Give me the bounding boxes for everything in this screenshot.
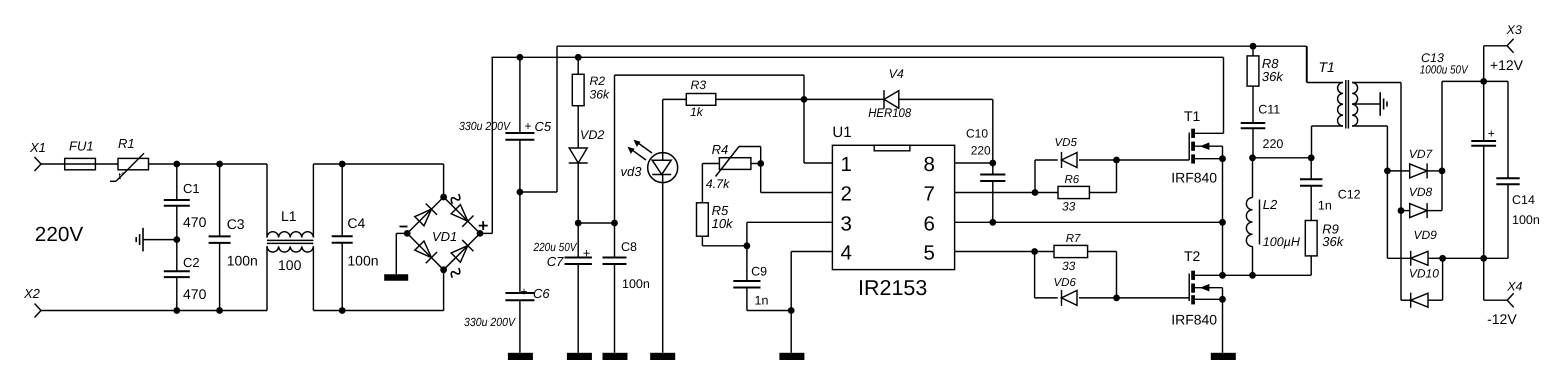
wire R1 to node — [149, 163, 268, 165]
wire FU1 to R1 — [95, 163, 118, 165]
wire R4 left to R5 — [702, 163, 719, 165]
svg-text:L2: L2 — [1263, 197, 1278, 212]
svg-text:220u 50V: 220u 50V — [533, 240, 578, 254]
svg-text:6: 6 — [924, 212, 935, 235]
node C11/L2 — [1249, 154, 1256, 161]
LED vd3 — [648, 153, 678, 183]
bridge VD1 diode top-right — [450, 204, 473, 227]
node C9/pin4 ground — [788, 307, 795, 314]
capacitor C2 — [176, 240, 178, 272]
node VD9/VD10 -12V — [1439, 255, 1446, 262]
bridge VD1 frame — [407, 197, 480, 270]
svg-text:7: 7 — [924, 183, 935, 206]
node R8 top — [1250, 43, 1257, 50]
choke L1 bottom winding — [266, 246, 268, 310]
svg-text:t°: t° — [119, 171, 126, 182]
svg-text:470: 470 — [183, 214, 207, 230]
node C12 top / primary bottom — [1308, 154, 1315, 161]
wire pin 4 to ground — [791, 251, 832, 253]
wire -12V row — [1443, 257, 1508, 259]
wire T1 source to T2 drain — [1222, 159, 1224, 276]
wire C9 to ground node — [747, 310, 791, 312]
wire pin 8 stub — [955, 162, 993, 164]
ground bar at C6 — [508, 353, 533, 360]
svg-text:100n: 100n — [347, 253, 378, 269]
bridge VD1 diode bottom-right — [450, 240, 473, 263]
bridge VD1 diode bottom-left — [414, 240, 437, 263]
svg-text:+: + — [521, 285, 528, 299]
resistor R8 — [1252, 46, 1254, 56]
capacitor C10 — [992, 163, 994, 174]
svg-text:FU1: FU1 — [69, 139, 94, 154]
svg-text:C7: C7 — [547, 254, 564, 269]
wire bridge minus to ground — [396, 232, 407, 234]
wire to bridge top — [443, 164, 445, 197]
svg-text:T2: T2 — [1184, 248, 1201, 264]
wire L1 to C4 bottom — [313, 310, 443, 312]
node top C3 — [216, 161, 223, 168]
svg-text:L1: L1 — [281, 208, 297, 224]
svg-text:220V: 220V — [35, 223, 84, 246]
svg-text:330u 200V: 330u 200V — [459, 119, 511, 133]
node top C1 — [173, 161, 180, 168]
svg-text:10k: 10k — [712, 216, 734, 231]
ground bar at C8 — [603, 353, 628, 360]
wire secondary bottom to VD7/VD9 — [1386, 126, 1388, 258]
resistor R6 — [1035, 192, 1058, 194]
node Vcc / R3 / V4 junction — [801, 96, 808, 103]
svg-text:470: 470 — [183, 286, 207, 302]
fuse FU1 — [65, 158, 96, 169]
svg-text:VD6: VD6 — [1054, 277, 1077, 289]
capacitor C11 — [1241, 122, 1266, 124]
svg-text:vd3: vd3 — [621, 164, 643, 179]
wire X1 to FU1 — [41, 163, 65, 165]
svg-text:1k: 1k — [690, 105, 704, 119]
svg-text:VD1: VD1 — [432, 229, 457, 244]
diode VD9 — [1387, 257, 1410, 259]
wire V4 to pin8 — [992, 99, 994, 163]
node pin7/VD5 branch — [1032, 189, 1039, 196]
wire pin 7 stub — [955, 192, 1035, 194]
resistor R2 — [577, 57, 579, 74]
svg-text:VD5: VD5 — [1055, 137, 1078, 149]
svg-text:C11: C11 — [1258, 103, 1280, 117]
svg-text:T1: T1 — [1319, 59, 1335, 75]
diode VD7 — [1387, 170, 1409, 172]
svg-text:100µH: 100µH — [1263, 235, 1301, 249]
wire +310V rail — [492, 56, 1224, 58]
svg-text:-12V: -12V — [1487, 311, 1517, 327]
node L2 bottom — [1249, 272, 1256, 279]
svg-text:100n: 100n — [622, 277, 650, 291]
svg-text:X2: X2 — [23, 286, 41, 301]
svg-text:220: 220 — [1263, 137, 1284, 151]
wire Vcc riser — [614, 75, 616, 223]
resistor R3 — [716, 98, 804, 100]
wire gate T2 — [1117, 297, 1190, 299]
node C5 top — [517, 54, 524, 61]
svg-text:VD9: VD9 — [1414, 228, 1438, 242]
svg-text:100n: 100n — [1512, 213, 1540, 227]
svg-text:U1: U1 — [832, 124, 851, 141]
svg-text:1n: 1n — [755, 294, 769, 308]
svg-text:100: 100 — [278, 257, 302, 273]
svg-text:4.7k: 4.7k — [706, 177, 730, 191]
svg-text:36k: 36k — [1262, 69, 1284, 84]
svg-text:R7: R7 — [1066, 233, 1081, 245]
svg-text:1n: 1n — [1318, 199, 1332, 213]
svg-text:220: 220 — [971, 144, 991, 158]
wire rail B to transformer primary top — [1306, 46, 1308, 82]
node Vcc at C8 — [611, 220, 618, 227]
svg-text:1: 1 — [841, 153, 852, 176]
resistor R7 — [1035, 251, 1054, 253]
diode VD6 — [1034, 252, 1036, 298]
diode V4 HER108 — [804, 98, 884, 100]
svg-text:C6: C6 — [533, 286, 550, 301]
wire pin 5 stub — [955, 251, 1035, 253]
ground bar at U1 — [779, 353, 804, 360]
svg-text:+: + — [525, 119, 532, 133]
node VD7 cathode — [1439, 168, 1446, 175]
svg-text:4: 4 — [841, 242, 852, 265]
svg-text:+: + — [583, 245, 591, 260]
svg-text:36k: 36k — [590, 88, 611, 102]
wire node to C12 node — [1253, 157, 1312, 159]
node pin 8 / VB — [989, 160, 996, 167]
choke L1 core — [267, 239, 313, 241]
node R4 right — [757, 160, 764, 167]
wire to bridge bottom — [443, 270, 445, 311]
wire secondary top to VD8/VD10 — [1400, 83, 1402, 301]
transformer T1 secondary winding — [1352, 83, 1357, 127]
op-amp U1 IR2153 body — [832, 145, 954, 269]
svg-text:C1: C1 — [183, 181, 200, 196]
bridge plus sign — [479, 225, 488, 227]
svg-text:VD8: VD8 — [1409, 185, 1433, 199]
svg-text:R6: R6 — [1065, 174, 1080, 186]
node VD8 anode — [1398, 207, 1405, 214]
svg-text:R4: R4 — [712, 142, 729, 157]
node bottom C4 — [339, 307, 346, 314]
capacitor C8 — [614, 223, 616, 258]
svg-text:1000u 50V: 1000u 50V — [1420, 63, 1469, 77]
wire R5 bottom to node — [701, 236, 703, 246]
node +12V — [1480, 78, 1487, 85]
transistor T2 IRF840 — [1188, 274, 1190, 302]
diode VD10 — [1401, 299, 1411, 301]
capacitor C13 (electrolytic) — [1483, 81, 1485, 141]
wire half-bridge cap midpoint rail — [557, 45, 1307, 47]
wire node to pin 3 — [746, 222, 748, 246]
svg-text:X4: X4 — [1506, 280, 1522, 294]
trimmer R4 — [719, 158, 751, 170]
svg-text:+: + — [1488, 127, 1495, 141]
wire X3 branch — [1483, 46, 1485, 82]
svg-text:330u 200V: 330u 200V — [464, 315, 516, 329]
svg-text:C14: C14 — [1512, 193, 1535, 207]
capacitor C7 (electrolytic) — [577, 223, 579, 258]
bridge AC mark top — [449, 193, 461, 205]
wire X2 bottom rail — [41, 310, 267, 312]
ground bar at T2 — [1211, 353, 1236, 360]
LED arrows — [636, 142, 652, 154]
bridge corner nodes — [440, 194, 447, 201]
bridge VD1 diode top-left — [414, 204, 437, 227]
node R2 top — [575, 54, 582, 61]
svg-text:100n: 100n — [227, 253, 258, 269]
wire +310V rail drop to T1 drain — [1223, 57, 1225, 133]
svg-text:33: 33 — [1062, 259, 1076, 273]
node C13 bottom / -12V — [1480, 255, 1487, 262]
capacitor C1 — [176, 164, 178, 200]
svg-text:IRF840: IRF840 — [1171, 312, 1217, 328]
svg-text:C12: C12 — [1338, 188, 1361, 202]
transformer T1 primary winding — [1338, 83, 1343, 127]
node bottom C1 chain — [173, 307, 180, 314]
wire gate T1 — [1117, 159, 1190, 161]
bridge minus sign — [400, 226, 408, 228]
ground bar at bridge — [384, 274, 408, 281]
svg-text:R2: R2 — [590, 74, 606, 88]
wire VD10 anode to -12V row — [1442, 258, 1444, 300]
transistor T1 IRF840 — [1188, 133, 1190, 161]
node VD7 anode — [1384, 168, 1391, 175]
wire X4 branch — [1483, 258, 1485, 300]
wire R4 to pin 2 — [760, 164, 762, 193]
capacitor C12 — [1310, 158, 1312, 180]
svg-text:+12V: +12V — [1490, 57, 1524, 73]
svg-text:IR2153: IR2153 — [858, 276, 927, 300]
svg-text:VD7: VD7 — [1409, 147, 1434, 161]
wire T2 source to ground — [1222, 299, 1224, 353]
svg-text:C9: C9 — [751, 265, 767, 279]
node T2 drain / midpoint — [1219, 272, 1226, 279]
wire bridge plus to +310V rail — [480, 232, 492, 234]
connector X4 — [1507, 293, 1514, 300]
capacitor C6 (electrolytic) — [519, 192, 521, 293]
node C5/C6 midpoint — [517, 189, 524, 196]
svg-text:C4: C4 — [347, 215, 365, 231]
svg-text:HER108: HER108 — [868, 106, 911, 120]
svg-text:VD10: VD10 — [1409, 267, 1439, 281]
svg-text:T1: T1 — [1184, 108, 1201, 124]
svg-text:C3: C3 — [227, 216, 245, 232]
wire L1 to C4 top — [313, 163, 443, 165]
svg-text:C8: C8 — [621, 240, 637, 254]
bridge AC mark bottom — [449, 267, 461, 279]
transformer T1 core — [1345, 80, 1347, 129]
wire VS rail pin 6 — [955, 221, 1223, 223]
svg-text:2: 2 — [841, 183, 852, 206]
svg-text:X3: X3 — [1506, 23, 1522, 37]
svg-text:R3: R3 — [691, 78, 707, 92]
wire C7 to C8 node — [578, 222, 614, 224]
svg-text:VD2: VD2 — [580, 128, 604, 142]
connector X2 — [35, 304, 42, 311]
ground bar at C7 — [567, 353, 592, 360]
node top C4 — [339, 161, 346, 168]
svg-text:R1: R1 — [118, 136, 135, 151]
wire pin 1 stub — [804, 162, 832, 164]
wire LED to ground — [662, 183, 664, 353]
resistor R5 — [697, 203, 709, 236]
transformer secondary center tap ground — [1352, 103, 1380, 105]
svg-text:X1: X1 — [29, 140, 46, 155]
node pin5/VD6 branch — [1031, 248, 1038, 255]
diode VD5 — [1034, 160, 1036, 193]
node bottom C3 — [216, 307, 223, 314]
node VD6/R7 right — [1113, 295, 1120, 302]
svg-text:C5: C5 — [535, 119, 552, 134]
node VS at half-bridge midpoint — [1219, 219, 1226, 226]
capacitor C3 — [219, 164, 221, 236]
connector X3 — [1507, 39, 1514, 46]
node C1-C2 midpoint — [173, 236, 180, 243]
svg-text:V4: V4 — [889, 67, 904, 81]
choke L1 top winding — [266, 164, 268, 238]
earth ground at C1/C2 — [143, 239, 177, 241]
svg-text:36k: 36k — [1322, 234, 1344, 249]
wire +12V rail — [1442, 80, 1508, 82]
node R5/C9/pin3 — [744, 242, 751, 249]
node C10 bottom / VS rail — [989, 219, 996, 226]
connector X1 — [35, 157, 42, 164]
wire VD7/VD8 cathodes to +12V — [1441, 81, 1443, 210]
svg-text:8: 8 — [924, 153, 935, 176]
svg-text:3: 3 — [841, 212, 852, 235]
svg-text:IRF840: IRF840 — [1171, 170, 1217, 186]
svg-text:C10: C10 — [966, 126, 988, 140]
inductor L2 — [1252, 158, 1254, 198]
svg-text:C2: C2 — [183, 255, 200, 270]
svg-text:33: 33 — [1062, 200, 1076, 214]
node VD5/R6 right — [1113, 157, 1120, 164]
node Vcc at C7 — [575, 220, 582, 227]
node T1 source — [1219, 155, 1226, 162]
wire R3 to LED — [662, 99, 664, 152]
capacitor C14 — [1507, 81, 1509, 178]
ground bar at LED — [650, 353, 675, 360]
diode VD2 — [569, 148, 587, 163]
capacitor C4 — [341, 164, 343, 236]
capacitor C9 — [746, 246, 748, 281]
capacitor C5 (electrolytic) — [519, 57, 521, 133]
svg-text:5: 5 — [924, 242, 935, 265]
diode VD8 — [1401, 210, 1410, 212]
node T2 source — [1219, 296, 1226, 303]
thermistor R1 — [118, 158, 149, 169]
resistor R9 — [1305, 221, 1317, 256]
